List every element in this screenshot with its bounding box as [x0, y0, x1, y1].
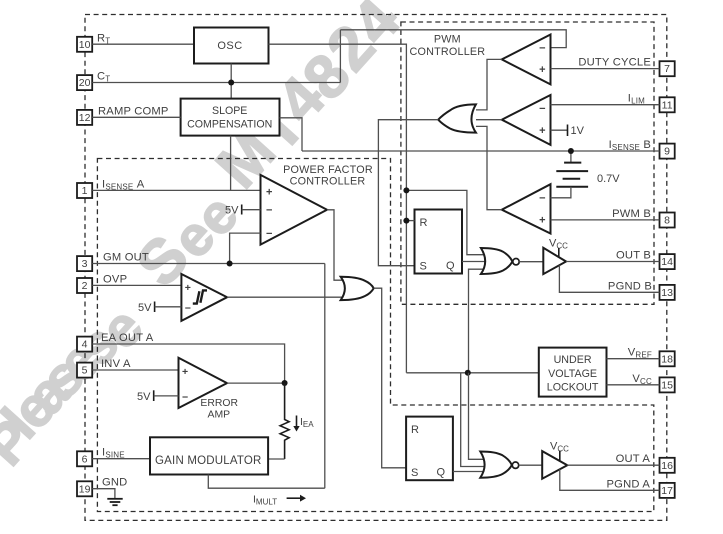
svg-text:OVP: OVP: [103, 273, 127, 285]
svg-text:UNDER: UNDER: [554, 354, 592, 366]
wire INV A pin5 to error amp: [92, 369, 178, 371]
svg-text:+: +: [539, 64, 545, 76]
svg-text:INV A: INV A: [101, 358, 131, 370]
svg-text:PWM: PWM: [434, 34, 461, 46]
svg-text:VOLTAGE: VOLTAGE: [548, 368, 597, 380]
svg-text:11: 11: [662, 99, 673, 111]
wire UVLO rail to NOR B bottom input: [469, 269, 487, 373]
svg-text:5: 5: [82, 365, 88, 377]
pin 20 (CT): [77, 75, 92, 90]
PWM controller dashed box: [401, 22, 654, 304]
under voltage lockout box: [539, 348, 607, 397]
svg-text:S: S: [411, 467, 418, 479]
pin 19 (GND): [77, 481, 92, 496]
pin 9 (ISENSE B): [660, 144, 675, 159]
wire UVLO to VCC pin15: [607, 384, 660, 386]
wire UVLO rail to NOR A top input: [469, 373, 487, 460]
pin 3 (GM OUT): [77, 256, 92, 271]
gain modulator box: [150, 437, 268, 474]
RS latch A: [406, 417, 453, 481]
wire buffer B to OUT B pin14: [566, 261, 659, 263]
wire RAMP COMP pin12 to slope box: [92, 116, 180, 118]
svg-text:PGND B: PGND B: [608, 280, 652, 292]
svg-text:+: +: [266, 186, 272, 198]
svg-text:+: +: [539, 215, 545, 227]
pin 15 (VCC): [660, 377, 675, 392]
pin 2 (OVP): [77, 278, 92, 293]
svg-text:PWM B: PWM B: [612, 208, 651, 220]
junction GM OUT: [227, 261, 233, 267]
wire EA OUT A pin4 to error amp output node: [92, 344, 284, 383]
wire gain modulator output to resistor: [268, 458, 285, 460]
svg-text:Q: Q: [437, 467, 446, 479]
wire UVLO rail branch to NOR A middle input: [461, 373, 487, 467]
wire UVLO to VREF pin18: [607, 358, 660, 360]
svg-text:DUTY CYCLE: DUTY CYCLE: [578, 57, 651, 69]
svg-text:−: −: [266, 228, 272, 240]
svg-text:R: R: [411, 424, 419, 436]
wire PFC OR output down to latch A set: [374, 288, 406, 468]
svg-text:4: 4: [82, 339, 88, 351]
wire PWM OR output to latch B set: [378, 120, 438, 266]
svg-text:OUT B: OUT B: [616, 250, 651, 262]
PWM comparator U2 (ILIM), left-pointing: [502, 95, 551, 145]
junction CT/OSC: [228, 80, 234, 86]
wire CT riser to top rail: [339, 30, 341, 83]
svg-text:17: 17: [661, 485, 673, 497]
svg-text:LOCKOUT: LOCKOUT: [547, 382, 599, 394]
wire slope comp down to ISENSE A line: [230, 136, 232, 191]
svg-text:ERROR: ERROR: [200, 398, 238, 409]
svg-text:CONTROLLER: CONTROLLER: [410, 46, 486, 58]
svg-text:−: −: [539, 103, 545, 115]
wire OSC bottom to slope compensation: [230, 64, 232, 99]
svg-text:19: 19: [79, 483, 91, 495]
svg-text:14: 14: [661, 256, 673, 268]
pin 4 (EA OUT A): [77, 337, 92, 352]
svg-text:GM OUT: GM OUT: [103, 252, 149, 264]
current arrow IEA: [293, 416, 314, 432]
svg-text:OUT A: OUT A: [616, 453, 651, 465]
svg-text:RAMP COMP: RAMP COMP: [98, 105, 169, 117]
pin 7 (DUTY CYCLE): [660, 61, 675, 76]
svg-text:5V: 5V: [225, 205, 239, 217]
svg-text:+: +: [182, 366, 188, 378]
VCC label at buffer B: [549, 238, 568, 257]
svg-text:−: −: [182, 391, 188, 403]
wire ILIM comparator - to pin11: [551, 104, 660, 106]
pin 8 (PWM B): [660, 213, 675, 228]
pin 18 (VREF): [660, 351, 675, 366]
wire PFC comparator output to PFC OR gate: [327, 210, 346, 280]
wire OSC clock branch to latch B reset: [406, 220, 414, 222]
pin 14 (OUT B): [660, 254, 675, 269]
wire OVP output to PFC OR gate: [227, 296, 345, 298]
pin 12 (RAMP COMP): [77, 110, 92, 125]
wire multiplier IMULT rail: [208, 475, 324, 489]
OVP comparator with hysteresis: [181, 274, 227, 321]
svg-text:−: −: [266, 205, 272, 217]
wire GM OUT pin3 rail: [92, 263, 325, 265]
svg-text:Q: Q: [446, 260, 455, 272]
reference 5V at OVP comparator: [138, 302, 181, 314]
reference 5V at PFC comparator: [225, 205, 260, 217]
svg-text:7: 7: [664, 63, 670, 75]
pin 5 (INV A): [77, 363, 92, 378]
junction UVLO rail: [465, 370, 471, 376]
pin 11 (ILIM): [660, 97, 675, 112]
PWM OR gate (left-pointing, 3-input): [438, 104, 476, 132]
wire PWM B comparator + to pin8: [551, 219, 660, 221]
wire comparator U3 output up to OR gate: [476, 126, 502, 209]
svg-text:−: −: [539, 193, 545, 205]
wire OVP pin2 to OVP comparator: [92, 284, 181, 286]
wire OSC output to PWM section: [269, 44, 407, 373]
svg-text:COMPENSATION: COMPENSATION: [187, 118, 272, 130]
wire slope comp output to ISENSE B rail: [280, 118, 303, 151]
junction error amp output node: [282, 380, 288, 386]
wire duty cycle comparator + to pin7: [551, 68, 660, 70]
svg-text:18: 18: [661, 353, 673, 365]
wire PGND B tap to pin13: [559, 265, 659, 292]
wire blanking branch to NOR B top input: [406, 190, 486, 254]
svg-text:+: +: [185, 282, 191, 294]
pin 16 (OUT A): [660, 458, 675, 473]
wire GM OUT up to PFC comparator lower input: [230, 233, 261, 263]
svg-text:GND: GND: [102, 477, 127, 489]
wire latch B Q to NOR B: [462, 261, 488, 263]
resistor IEA: [280, 383, 289, 459]
slope compensation box: [181, 99, 280, 136]
junction ISENSE B / battery: [568, 148, 574, 154]
pin 1 (ISENSE A): [77, 183, 92, 198]
svg-text:−: −: [185, 302, 191, 314]
PFC controller / output-A dashed region (L-shaped): [97, 159, 653, 512]
svg-text:16: 16: [661, 460, 673, 472]
pin 6 (ISINE): [77, 451, 92, 466]
wire NOR B to buffer B: [519, 261, 543, 263]
ground symbol at pin 19: [92, 489, 123, 506]
wire top rail to PWM comparator feedback: [340, 30, 566, 48]
wire ILIM comparator output to OR gate: [476, 119, 502, 121]
pin 10 (RT): [77, 37, 92, 52]
pin 13 (PGND B): [660, 285, 675, 300]
svg-text:1: 1: [82, 185, 88, 197]
PFC OR gate: [341, 277, 374, 300]
svg-text:AMP: AMP: [208, 409, 231, 420]
PFC comparator U-pfc (3-input): [261, 175, 328, 245]
wire ISENSE A pin1 to PFC comparator: [92, 189, 260, 191]
NOR gate B: [481, 248, 519, 274]
error amplifier: [179, 358, 228, 408]
svg-text:OSC: OSC: [217, 40, 242, 52]
wire ISENSE B rail: [302, 150, 660, 152]
PWM comparator U1 (duty cycle), left-pointing: [502, 35, 551, 85]
svg-text:5V: 5V: [137, 391, 151, 403]
IC boundary dashed box: [85, 15, 667, 521]
svg-text:1V: 1V: [571, 125, 585, 137]
NOR gate A: [480, 452, 518, 478]
PWM comparator U3 (0.7V / PWM B), left-pointing: [502, 184, 551, 233]
svg-text:5V: 5V: [138, 302, 152, 314]
reference 5V at error amp: [137, 390, 178, 403]
junction clock/reset B: [403, 218, 409, 224]
svg-text:+: +: [539, 125, 545, 137]
output buffer B: [543, 248, 566, 274]
svg-text:S: S: [420, 261, 427, 273]
wire RT pin10 to OSC: [92, 43, 194, 45]
RS latch B: [415, 210, 463, 274]
svg-text:PGND A: PGND A: [607, 478, 651, 490]
svg-text:2: 2: [82, 280, 88, 292]
svg-text:12: 12: [79, 112, 91, 124]
svg-text:−: −: [539, 43, 545, 55]
wire CT pin20 to x=340 riser: [92, 82, 340, 84]
label ERROR AMP: [200, 398, 238, 421]
svg-text:GAIN MODULATOR: GAIN MODULATOR: [155, 455, 262, 467]
svg-text:3: 3: [82, 258, 88, 270]
wire NOR A to buffer A: [519, 464, 543, 466]
svg-text:8: 8: [664, 215, 670, 227]
wire latch A Q to NOR A: [453, 471, 486, 473]
pin 17 (PGND A): [660, 483, 675, 498]
wire comparator U1 output to OR gate: [476, 59, 502, 110]
svg-text:10: 10: [79, 39, 91, 51]
svg-text:13: 13: [661, 287, 673, 299]
svg-text:POWER FACTOR: POWER FACTOR: [283, 164, 373, 176]
wire OSC line down to UVLO: [406, 372, 538, 374]
battery 0.7V reference: [551, 151, 621, 198]
svg-text:CONTROLLER: CONTROLLER: [290, 176, 366, 188]
wire ISINE pin6 to gain modulator: [92, 458, 151, 460]
label PWM CONTROLLER: [410, 34, 486, 59]
oscillator OSC box: [194, 28, 269, 64]
svg-text:6: 6: [82, 453, 88, 465]
svg-text:EA OUT A: EA OUT A: [101, 332, 154, 344]
svg-text:15: 15: [661, 379, 673, 391]
svg-text:9: 9: [664, 146, 670, 158]
wire GM OUT down to multiplier rail: [324, 264, 326, 489]
svg-text:SLOPE: SLOPE: [212, 105, 247, 117]
wire PGND A tap to pin17: [560, 469, 660, 490]
VCC label at buffer A: [550, 441, 569, 461]
reference 1V at ILIM comparator: [551, 125, 585, 138]
svg-text:0.7V: 0.7V: [597, 173, 620, 185]
svg-text:R: R: [420, 217, 428, 229]
watermark "Please See MI4824" diagonal gray text: [0, 0, 414, 477]
label IMULT with arrow: [253, 494, 306, 507]
output buffer A: [542, 451, 567, 479]
svg-text:20: 20: [79, 77, 91, 89]
wire buffer A to OUT A pin16: [567, 464, 659, 466]
junction blanking branch: [403, 187, 409, 193]
label POWER FACTOR CONTROLLER: [283, 164, 373, 188]
wire error amp output: [227, 382, 285, 384]
